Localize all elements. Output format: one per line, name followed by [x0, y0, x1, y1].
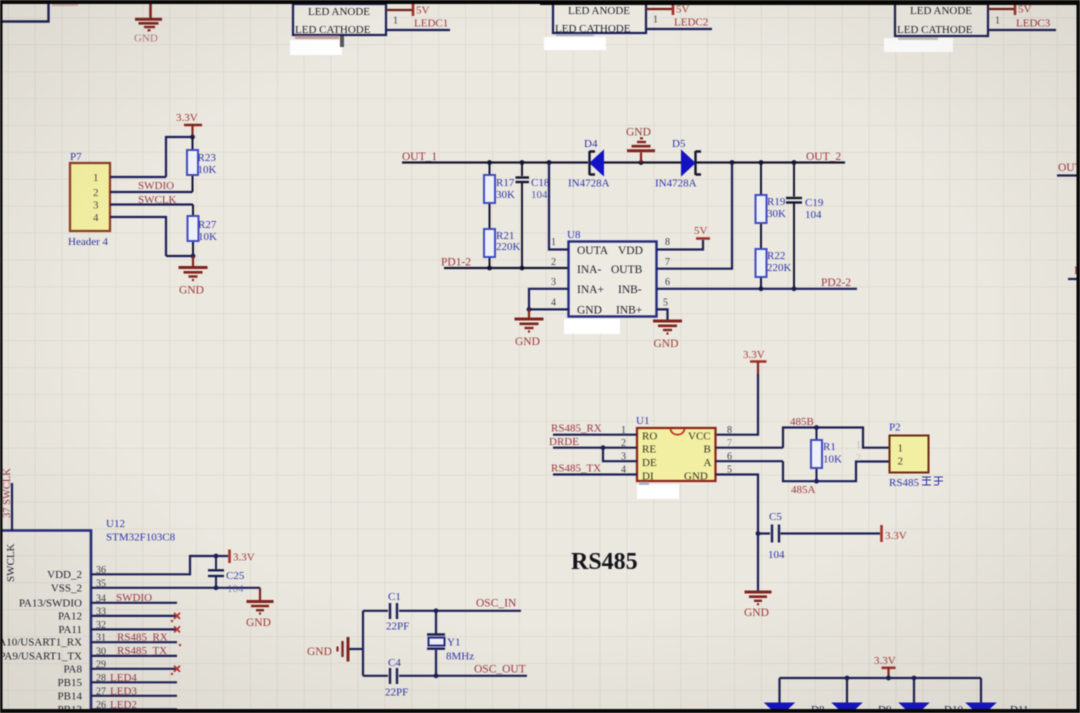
wire U1 pin6 A — [716, 460, 784, 462]
wire P7 pin2 — [110, 191, 193, 193]
svg-text:220K: 220K — [496, 241, 521, 253]
wire U12 pin 29 — [91, 668, 177, 670]
wire U12 pin 36 — [91, 554, 218, 575]
designator U1 — [636, 415, 649, 427]
label C4 22PF — [385, 657, 408, 699]
wire U1 pin4 RS485_TX — [553, 473, 637, 475]
wire rail D4-D5 — [604, 161, 681, 163]
net label OSC_OUT — [474, 664, 526, 676]
svg-text:2: 2 — [856, 453, 861, 464]
svg-text:OUT_1: OUT_1 — [402, 151, 437, 163]
IC U1 (RS485 transceiver) — [637, 428, 716, 483]
net label OUT_2 — [806, 151, 841, 163]
label C5 104 — [768, 511, 785, 561]
svg-text:PB15: PB15 — [58, 677, 83, 689]
net label OSC_IN — [476, 598, 517, 610]
svg-text:30K: 30K — [496, 189, 515, 201]
svg-text:2: 2 — [93, 187, 99, 199]
svg-text:A: A — [704, 457, 712, 469]
svg-text:RS485: RS485 — [571, 549, 638, 575]
resistor R27 — [188, 205, 199, 257]
net label RS485_TX — [551, 463, 601, 475]
net label SWCLK — [138, 194, 177, 206]
svg-text:GND: GND — [515, 336, 540, 348]
wire U8 pin5 — [657, 309, 668, 320]
svg-text:GND: GND — [179, 285, 204, 297]
white patch under U8 — [564, 319, 620, 334]
white patch under U1 — [637, 482, 679, 500]
net label LEDC2 — [674, 17, 708, 29]
svg-text:GND: GND — [684, 471, 708, 483]
diode D4 (zener) — [590, 151, 604, 176]
designator U12 — [106, 518, 125, 530]
power 3.3V (diode row) — [874, 655, 896, 678]
svg-text:OSC_OUT: OSC_OUT — [474, 664, 526, 676]
svg-text:U1: U1 — [636, 415, 649, 427]
wire U8 pin6 PD2-2 — [657, 286, 858, 291]
svg-text:3.3V: 3.3V — [743, 349, 765, 361]
no-ERC markers — [174, 613, 180, 672]
svg-text:37 SWCLK: 37 SWCLK — [2, 468, 13, 518]
wire U1 pin1 RS485_RX — [553, 434, 637, 436]
resistor R17 — [484, 163, 495, 230]
svg-text:22PF: 22PF — [385, 687, 408, 699]
pin number 1 — [995, 16, 1000, 27]
svg-text:P2: P2 — [889, 422, 901, 434]
svg-text:220K: 220K — [767, 262, 792, 274]
ground GND (P7) — [179, 256, 208, 297]
text remnant under block3 — [898, 37, 938, 40]
svg-text:RS485: RS485 — [889, 477, 919, 489]
wire U8 pin1 — [549, 163, 569, 250]
wire SWCLK top pin — [11, 483, 13, 531]
resistor R21 — [484, 229, 495, 268]
wire cathode net — [386, 29, 450, 31]
svg-text:1: 1 — [653, 15, 658, 26]
ghost pin numbers P2 — [856, 440, 861, 464]
svg-text:PD2-2: PD2-2 — [821, 277, 851, 289]
svg-text:C1: C1 — [388, 591, 401, 603]
pin numbers U1 left — [621, 425, 626, 476]
svg-text:PA9/USART1_TX: PA9/USART1_TX — [0, 650, 82, 662]
svg-text:GND: GND — [744, 607, 769, 619]
svg-text:LED4: LED4 — [110, 672, 137, 684]
svg-text:OSC_IN: OSC_IN — [476, 598, 517, 610]
wire U12 pin 31 — [91, 641, 177, 643]
svg-text:U12: U12 — [106, 518, 125, 530]
svg-text:RO: RO — [642, 431, 657, 443]
power 3.3V (P7 pull-ups) — [176, 112, 202, 137]
svg-text:LED CATHODE: LED CATHODE — [295, 24, 371, 36]
pin number 1 — [653, 15, 658, 26]
wire U12 pin 30 — [91, 655, 177, 657]
ground GND top-left — [135, 19, 162, 30]
svg-text:104: 104 — [531, 189, 548, 201]
svg-text:PA13/SWDIO: PA13/SWDIO — [19, 597, 82, 609]
label C25 104 — [226, 570, 245, 595]
label C18 104 — [531, 177, 550, 201]
wire U1 pin5 GND drop — [716, 475, 761, 592]
svg-text:INA+: INA+ — [577, 284, 604, 296]
svg-text:10K: 10K — [823, 454, 842, 466]
svg-text:C19: C19 — [805, 197, 824, 209]
wire P7 pin3 — [110, 203, 193, 205]
wire 3.3V junction branch — [166, 135, 195, 177]
svg-text:DRDE: DRDE — [549, 436, 579, 448]
svg-text:1: 1 — [856, 440, 861, 451]
capacitor C5 — [758, 525, 880, 543]
wire drops to diodes — [780, 678, 982, 703]
svg-text:VCC: VCC — [688, 431, 711, 443]
power 3.3V (U1 VCC) — [743, 349, 767, 374]
designator P7 — [70, 151, 82, 163]
designator D10 — [944, 704, 963, 713]
wire U8 pin3 pin4 — [527, 289, 569, 312]
svg-text:5: 5 — [663, 298, 668, 309]
svg-text:2: 2 — [551, 257, 556, 268]
value RS485 terminal — [889, 477, 943, 489]
capacitor C4 — [363, 668, 436, 684]
designator P2 — [889, 422, 901, 434]
wire R27 bottom — [166, 254, 195, 259]
net label 37/SWCLK vertical — [2, 468, 13, 518]
crystal Y1 — [427, 611, 445, 676]
svg-text:8: 8 — [727, 425, 732, 436]
ground GND (RS485) — [744, 592, 772, 619]
net label P (right edge) — [1074, 265, 1080, 277]
value IN4728A (D5) — [655, 178, 697, 190]
svg-text:Y1: Y1 — [447, 637, 460, 649]
wire PD1-2 — [444, 266, 569, 271]
designator D11 — [1010, 704, 1029, 713]
label R17 30K — [496, 177, 515, 201]
partial component box top-left — [0, 0, 49, 22]
power 5V — [1015, 3, 1032, 16]
white patch — [290, 40, 342, 55]
label R23 10K — [198, 152, 217, 176]
pin names U12 — [0, 569, 82, 713]
svg-text:LED ANODE: LED ANODE — [568, 5, 630, 17]
ground GND (crystal, rotated) — [307, 637, 363, 662]
svg-text:GND: GND — [307, 646, 332, 658]
net label LEDC3 — [1016, 18, 1051, 30]
svg-text:PA11: PA11 — [58, 624, 82, 636]
svg-text:LED CATHODE: LED CATHODE — [555, 23, 631, 35]
diode D11 — [967, 703, 996, 713]
pin numbers U1 right — [727, 425, 732, 476]
svg-text:INB-: INB- — [618, 284, 642, 296]
wire right edge OUT — [1057, 174, 1080, 176]
wire U8 pin7 to OUT_2 — [657, 163, 733, 269]
svg-text:R17: R17 — [496, 177, 515, 189]
capacitor C1 — [363, 603, 436, 619]
svg-text:PD1-2: PD1-2 — [441, 257, 471, 269]
capacitor C19 — [786, 163, 802, 289]
svg-text:RS485_RX: RS485_RX — [551, 423, 602, 435]
svg-text:3.3V: 3.3V — [233, 552, 255, 564]
designator D4 — [584, 138, 598, 150]
text remnant top-left — [52, 2, 78, 6]
svg-text:INA-: INA- — [577, 264, 601, 276]
svg-text:C4: C4 — [388, 657, 401, 669]
svg-text:10K: 10K — [198, 164, 217, 176]
svg-text:GND: GND — [654, 338, 679, 350]
svg-text:OUT_2: OUT_2 — [806, 151, 841, 163]
svg-text:RS485_TX: RS485_TX — [117, 645, 167, 657]
svg-text:LEDC2: LEDC2 — [674, 17, 708, 29]
capacitor C18 — [516, 163, 530, 269]
svg-text:1: 1 — [393, 16, 398, 27]
value STM32F103C8 — [106, 532, 176, 544]
svg-text:U8: U8 — [567, 229, 581, 241]
wire crystal left rail — [362, 611, 364, 676]
net label 485A — [791, 484, 816, 496]
wire 485A bracket — [783, 461, 890, 483]
pin numbers U8 left — [551, 237, 556, 309]
svg-text:DE: DE — [642, 457, 657, 469]
svg-text:8MHz: 8MHz — [446, 651, 474, 663]
text remnant under block2 — [556, 34, 594, 36]
label Y1 8MHz — [446, 637, 474, 663]
ground GND (U8 right) — [653, 321, 682, 350]
svg-text:RS485_TX: RS485_TX — [551, 463, 601, 475]
svg-text:PB14: PB14 — [58, 690, 83, 702]
wire anode to 5V — [988, 8, 1015, 10]
svg-text:OUTA: OUTA — [577, 245, 609, 257]
svg-text:GND: GND — [246, 617, 271, 629]
svg-text:R23: R23 — [198, 152, 217, 164]
wire U12 pin 32 — [91, 628, 177, 630]
svg-text:4: 4 — [93, 212, 99, 224]
net label PD1-2 — [441, 257, 471, 269]
ground GND (U8 left) — [515, 309, 544, 348]
text remnant under block1 — [295, 36, 344, 48]
svg-text:DI: DI — [642, 471, 654, 483]
IC U12 box edges — [0, 531, 91, 713]
svg-text:IN4728A: IN4728A — [568, 178, 610, 190]
connector P-LED1 LED block — [293, 4, 386, 36]
pin numbers U8 right — [663, 237, 670, 309]
wire anode to 5V — [646, 8, 673, 10]
svg-text:R19: R19 — [767, 196, 786, 208]
pin number 1 — [393, 16, 398, 27]
svg-text:VDD: VDD — [618, 245, 643, 257]
label R27 10K — [198, 219, 217, 243]
svg-text:1: 1 — [93, 172, 99, 184]
label C19 104 — [805, 197, 824, 221]
svg-text:3: 3 — [551, 277, 556, 288]
wire U1 pin2 DRDE — [553, 445, 637, 450]
svg-text:1: 1 — [995, 16, 1000, 27]
diode D8 — [765, 703, 794, 713]
svg-text:D4: D4 — [584, 138, 598, 150]
svg-text:LEDC3: LEDC3 — [1016, 18, 1051, 30]
svg-text:485B: 485B — [790, 416, 814, 428]
svg-text:30K: 30K — [767, 208, 786, 220]
net label OUT (right edge) — [1058, 162, 1080, 174]
power 5V (U8) — [694, 225, 710, 239]
power 5V — [673, 3, 690, 16]
svg-text:IN4728A: IN4728A — [655, 178, 697, 190]
svg-text:OUTB: OUTB — [611, 264, 643, 276]
resistor R22 — [756, 249, 767, 289]
power 5V — [413, 4, 430, 17]
resistor R19 — [756, 163, 767, 250]
wire top-left GND stub — [149, 0, 152, 18]
svg-text:C25: C25 — [226, 570, 245, 582]
svg-text:VDD_2: VDD_2 — [47, 569, 82, 581]
svg-text:RE: RE — [642, 444, 656, 456]
net label 485B — [790, 416, 814, 428]
wire U8 pin8 to 5V — [657, 240, 704, 250]
wire U12 pin 26 — [91, 708, 177, 710]
svg-text:10K: 10K — [198, 231, 217, 243]
junction dots OUT rail — [487, 160, 796, 165]
wire anode to 5V — [386, 9, 413, 11]
svg-text:R1: R1 — [823, 441, 836, 453]
power 3.3V (C5) — [882, 525, 907, 542]
svg-text:104: 104 — [227, 583, 244, 595]
svg-text:104: 104 — [768, 549, 785, 561]
net labels U12 pins — [110, 592, 168, 711]
wire U12 pin 35 — [91, 585, 260, 590]
value IN4728A (D4) — [568, 178, 610, 190]
svg-text:8: 8 — [665, 237, 670, 248]
svg-text:LED3: LED3 — [110, 686, 137, 698]
wire P7 pin1 — [110, 176, 166, 178]
wire right edge PD — [1068, 278, 1080, 280]
designator D8 — [811, 704, 825, 713]
svg-text:INB+: INB+ — [616, 305, 642, 317]
wire cathode net — [988, 29, 1056, 31]
svg-text:C5: C5 — [769, 511, 782, 523]
svg-text:LED CATHODE: LED CATHODE — [897, 24, 973, 36]
wire OUT_2 rail — [696, 161, 845, 163]
pin name SWCLK vertical — [5, 543, 17, 582]
svg-text:485A: 485A — [791, 484, 816, 496]
white patch — [544, 37, 606, 50]
svg-text:R22: R22 — [767, 250, 785, 262]
svg-text:LEDC1: LEDC1 — [414, 18, 448, 30]
svg-text:SWDIO: SWDIO — [116, 592, 152, 604]
svg-text:B: B — [704, 444, 711, 456]
svg-text:LED ANODE: LED ANODE — [910, 5, 972, 17]
wire 485B bracket — [783, 425, 890, 448]
svg-text:GND: GND — [577, 305, 602, 317]
net label DRDE — [549, 436, 579, 448]
net label RS485_RX — [551, 423, 602, 435]
wire OUT_1 rail — [402, 161, 588, 163]
diode D9 — [833, 703, 862, 713]
wire OSC_OUT — [434, 673, 527, 678]
connector P-LED2 LED block — [553, 3, 646, 35]
op-amp U8 — [569, 242, 657, 317]
designator D5 — [672, 138, 686, 150]
svg-text:LED ANODE: LED ANODE — [308, 6, 370, 18]
label R1 10K — [823, 441, 842, 466]
wire U12 pin 28 — [91, 681, 177, 683]
label R22 220K — [767, 250, 792, 274]
net label LEDC1 — [414, 18, 448, 30]
svg-text:STM32F103C8: STM32F103C8 — [106, 532, 176, 544]
section title RS485 — [571, 549, 638, 575]
svg-text:Header 4: Header 4 — [68, 236, 109, 248]
svg-text:5V: 5V — [416, 5, 430, 17]
net label OUT_1 — [402, 151, 437, 163]
wire cathode net — [646, 28, 712, 30]
diode D5 (zener) — [682, 151, 702, 176]
svg-text:3.3V: 3.3V — [885, 530, 907, 542]
diode D10 — [900, 703, 929, 713]
svg-text:5V: 5V — [694, 225, 708, 237]
connector P-LED3 LED block — [895, 2, 988, 36]
svg-text:1: 1 — [898, 443, 904, 455]
svg-text:GND: GND — [134, 33, 158, 45]
svg-text:SWCLK: SWCLK — [138, 194, 177, 206]
wire P7 pin4 — [110, 217, 166, 256]
svg-text:3.3V: 3.3V — [874, 655, 896, 667]
power 3.3V (U12) — [216, 550, 255, 564]
svg-text:5V: 5V — [1018, 4, 1032, 16]
ground GND (centre, inverted) — [626, 127, 655, 163]
value Header 4 — [68, 236, 109, 248]
white patch — [884, 38, 953, 52]
svg-text:5V: 5V — [676, 4, 690, 16]
svg-text:7: 7 — [665, 257, 670, 268]
wire U1 pin3 — [603, 448, 637, 462]
resistor R23 — [187, 137, 198, 192]
wire U1 pin7 B — [716, 447, 784, 449]
wire OSC_IN — [434, 608, 521, 613]
svg-text:SWCLK: SWCLK — [5, 543, 17, 582]
svg-text:22PF: 22PF — [386, 621, 409, 633]
svg-text:6: 6 — [665, 277, 670, 288]
svg-text:PA10/USART1_RX: PA10/USART1_RX — [0, 637, 82, 649]
svg-text:GND: GND — [626, 127, 651, 139]
pin numbers U12 — [96, 565, 106, 711]
wire U12 pin 27 — [91, 695, 177, 697]
svg-text:C18: C18 — [531, 177, 550, 189]
label R19 30K — [767, 196, 786, 220]
label R21 220K — [496, 230, 521, 253]
svg-text:1: 1 — [551, 237, 556, 248]
svg-text:VSS_2: VSS_2 — [51, 582, 82, 594]
svg-text:RS485_RX: RS485_RX — [117, 632, 168, 644]
svg-text:4: 4 — [551, 298, 556, 309]
wire U12 pin 34 — [91, 602, 177, 604]
wire U12 pin 33 — [91, 615, 177, 617]
label C1 22PF — [386, 591, 409, 633]
svg-text:P7: P7 — [70, 151, 82, 163]
net label SWDIO — [138, 180, 174, 192]
svg-text:3.3V: 3.3V — [176, 112, 198, 124]
connector P7 — [70, 163, 110, 231]
svg-text:3: 3 — [93, 200, 99, 212]
connector P2 — [890, 436, 929, 473]
svg-text:SWDIO: SWDIO — [138, 180, 174, 192]
net label PD2-2 — [821, 277, 851, 289]
svg-text:R27: R27 — [198, 219, 217, 231]
svg-text:2: 2 — [898, 456, 904, 468]
svg-text:D5: D5 — [672, 138, 686, 150]
designator U8 — [567, 229, 581, 241]
svg-text:PA8: PA8 — [63, 663, 82, 675]
designator D9 — [878, 704, 892, 713]
capacitor C25 — [208, 556, 224, 588]
wire VCC drop — [716, 374, 759, 435]
ground GND (U12) — [246, 588, 274, 629]
svg-text:104: 104 — [805, 209, 822, 221]
